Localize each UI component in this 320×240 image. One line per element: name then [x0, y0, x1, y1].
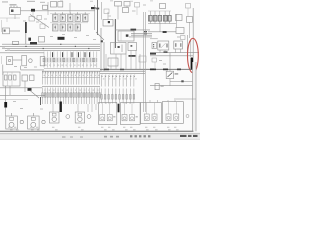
label marks left-mid — [14, 66, 37, 68]
bus y85.7 right — [150, 85, 193, 87]
enclosure E12 — [141, 103, 162, 124]
connector X1 (black) — [31, 9, 35, 12]
wire x101 — [100, 28, 102, 71]
fuse feeds up — [148, 11, 171, 16]
relay K1 — [53, 12, 59, 21]
wire y30 — [115, 29, 150, 31]
connector X5 (black dash) — [131, 29, 137, 31]
module A17 — [30, 75, 35, 81]
wire A1 to X1 — [21, 10, 32, 12]
conduit channel right — [193, 62, 197, 131]
module A11 — [160, 4, 166, 9]
feed M4 — [77, 104, 79, 112]
connector X17 (dark) — [181, 80, 183, 82]
terminal strip T1 — [13, 41, 19, 44]
bus above relay row 1 — [50, 13, 90, 15]
window bottom edge — [0, 139, 200, 140]
connector X7 (dark) — [163, 31, 167, 33]
switch S4 — [158, 41, 169, 50]
connector X10 (dark bar) — [118, 104, 120, 113]
wire x176 — [176, 14, 178, 28]
switch drops — [160, 49, 181, 53]
module A7 — [123, 8, 129, 13]
enclosure E10 — [99, 103, 117, 125]
module A23 — [37, 16, 42, 20]
label marks bottom-left — [13, 101, 43, 110]
fuse row upper ticks — [44, 52, 97, 58]
wire trunk x97 — [97, 0, 99, 35]
connector X3 (dark) — [28, 88, 32, 91]
module A28 — [152, 58, 157, 62]
wire x94 — [94, 5, 96, 30]
wire y99.5 left — [0, 99, 28, 101]
bus y68.3 — [44, 67, 100, 69]
lamp E5 — [87, 115, 91, 119]
bus between relay rows — [50, 22, 88, 24]
module A5 — [103, 20, 113, 27]
switch S2 — [6, 57, 12, 65]
lamp E8 — [186, 115, 189, 118]
connector X14 (dark) — [150, 53, 156, 55]
label marks right-mid — [159, 60, 166, 65]
feed M3 — [52, 104, 54, 112]
relay K3 — [68, 12, 74, 21]
fuse F33 — [158, 16, 162, 22]
wire x155 — [154, 62, 156, 69]
bus bundle right-center — [129, 34, 152, 37]
wire x2.8 down — [2, 65, 4, 75]
module A27 — [186, 4, 191, 9]
wire W1 down — [25, 33, 27, 44]
wire drops center — [106, 51, 140, 70]
bus y87.8 left — [0, 87, 42, 89]
wire x104 — [103, 42, 105, 71]
wire y99 to conduit — [174, 98, 196, 100]
label marks top-left — [2, 1, 45, 3]
relay K10 — [111, 43, 127, 55]
connector X8 (black) — [4, 102, 7, 108]
wire x188 — [187, 8, 189, 17]
fuse links (dark bars) — [52, 52, 90, 57]
wire x160 drop — [159, 23, 161, 32]
bus W12 — [42, 70, 145, 72]
ground rail bottom border — [0, 130, 193, 132]
harness pin dots row 3 — [102, 76, 135, 77]
wire x33 — [32, 12, 34, 17]
harness label haze row 1 — [44, 75, 100, 76]
page margin strip — [0, 132, 200, 134]
motor M2 — [28, 113, 39, 129]
wire trunk x115 (dark) — [114, 19, 116, 48]
bus y55.8 right — [150, 55, 193, 57]
module A26 — [135, 3, 140, 8]
status bar divider — [0, 133, 200, 135]
module A18 — [39, 37, 45, 43]
wire x25 — [24, 81, 26, 92]
wire B2 right — [10, 30, 21, 32]
lamp E4 — [66, 115, 70, 119]
connector X6 marks — [144, 31, 147, 34]
wire y81.4 to conduit — [170, 80, 193, 82]
wire x20.7 — [20, 66, 22, 70]
label marks above bundle — [50, 34, 96, 40]
wire x137 — [136, 7, 138, 15]
module A21 — [139, 56, 146, 62]
enclosure E13 — [162, 102, 183, 124]
module A15 — [181, 36, 186, 40]
relay block K11 — [3, 72, 20, 86]
status bar mid glyphs — [104, 136, 119, 138]
wire y52.8 — [0, 52, 44, 54]
wire x40.5 (dark drop) — [40, 97, 42, 105]
connector X18 (dark dash) — [91, 7, 96, 9]
fuse body band — [44, 58, 97, 63]
module A10 — [187, 17, 193, 23]
junction dot — [101, 40, 103, 42]
module A16 — [22, 75, 28, 81]
bus bar W1 (dark) — [25, 22, 27, 33]
harness pin row 2 — [43, 88, 100, 105]
fuse F31 — [149, 16, 153, 22]
diode V1 — [43, 5, 48, 9]
label marks top edge — [60, 0, 153, 1]
harness pin row 3 — [102, 75, 136, 87]
motor M4 — [75, 112, 85, 123]
label A1 — [10, 4, 17, 5]
wire pair x143.5 — [144, 12, 146, 112]
module A24 — [40, 24, 45, 29]
splice bodies row 2 — [42, 93, 101, 97]
bus W13 — [100, 73, 145, 75]
connector X15 — [152, 43, 157, 49]
harness bus y86.3 — [42, 85, 100, 87]
feeds into enclosures — [106, 100, 175, 104]
relay K7 — [60, 24, 66, 31]
motor M3 — [50, 112, 60, 123]
status bar — [0, 134, 200, 140]
label marks left-center — [2, 19, 47, 51]
wire x118 — [117, 6, 119, 20]
wire diagonal — [96, 32, 104, 40]
fuse label haze — [45, 65, 96, 66]
sensor B2 — [3, 28, 10, 34]
wire x108 up — [107, 12, 109, 20]
motor M1 — [6, 113, 17, 129]
fuse F35 — [168, 16, 172, 22]
pin drops — [150, 21, 169, 23]
harness label haze row 2 — [44, 90, 98, 91]
module A19 — [155, 84, 164, 90]
switch S3 — [22, 55, 27, 65]
module A20 — [176, 28, 184, 34]
wire x190.8 — [190, 40, 192, 57]
harness pin row 1 — [43, 72, 101, 85]
wire x10 — [9, 86, 11, 95]
wire x170 to valve — [169, 53, 171, 72]
wire stub left edge — [0, 18, 20, 22]
wire S2-S3 — [13, 59, 22, 61]
relay K9 — [75, 24, 81, 31]
lamp E1 — [29, 59, 33, 63]
enclosure inner feed wires — [102, 102, 176, 115]
wire x127 — [126, 6, 128, 8]
enclosure E11 — [121, 103, 141, 125]
connector X19 (dark dash) — [96, 8, 99, 10]
box A12 — [40, 57, 45, 66]
module A9 — [176, 15, 183, 21]
bus y31.8 — [148, 31, 176, 33]
wire feed M1 — [5, 108, 7, 117]
connector lugs on W11 — [104, 69, 181, 71]
module A13 — [108, 58, 118, 66]
bus y23.5 — [148, 23, 176, 25]
red annotation ellipse — [188, 38, 199, 72]
harness mid rail row 1 — [42, 77, 100, 79]
relay K6 — [53, 24, 59, 31]
wire y38.8 into S4 — [150, 38, 158, 40]
module A14 — [128, 43, 137, 51]
bus y95.3 left — [0, 94, 45, 96]
wire y69.9 left — [21, 69, 44, 71]
valve Y1 (box with arrow) — [166, 71, 178, 78]
bus bundle W10 — [0, 44, 100, 50]
page edge wire x193 — [192, 8, 194, 62]
wire x170 drop — [169, 79, 171, 86]
connector X11 (dark square) — [28, 38, 31, 41]
labels under enclosures — [10, 128, 179, 131]
relay K5 — [83, 12, 89, 21]
antenna element W2 (dark bar) — [191, 58, 193, 71]
wire diagonal to bus bar — [30, 15, 49, 28]
wire x48 top — [47, 2, 49, 15]
connector X12 (dark dash) — [58, 37, 65, 40]
fuse bodies — [43, 58, 97, 62]
drops to mid motors — [88, 104, 96, 112]
connector X9 (dark bar) — [60, 102, 62, 113]
module A25 — [104, 9, 109, 14]
wire drop from A1 — [14, 15, 16, 20]
relay K4 — [75, 12, 81, 21]
relay K2 — [60, 12, 66, 21]
wire x5.5 — [5, 86, 7, 102]
module cluster A3 — [51, 2, 63, 8]
relay K8 — [68, 24, 74, 31]
wire x189.5 from A10 — [189, 22, 191, 38]
label marks right — [177, 33, 184, 38]
lamp E3 — [42, 120, 45, 123]
connector X2 (dark dash) — [30, 42, 37, 45]
bus y52.6 right — [150, 52, 199, 54]
wire X1 to bus — [35, 10, 95, 12]
harness pin row 4 — [101, 89, 135, 104]
modules A6 — [115, 2, 131, 7]
wire x101.5 top — [101, 2, 103, 20]
left edge wire stubs — [1, 20, 3, 64]
wire diagonal lower-left — [30, 91, 39, 99]
connector X16 (dark) — [164, 51, 168, 53]
module A22 — [29, 17, 35, 22]
fuse lower stubs — [44, 63, 97, 68]
control unit A1 — [10, 6, 21, 15]
harness label haze row 3 — [103, 78, 137, 79]
fuse F32 — [153, 16, 157, 22]
junction dots on bundle — [25, 44, 89, 49]
connector X13 (dark dash) — [129, 55, 136, 57]
fuse F34 — [163, 16, 167, 22]
status bar right text — [180, 135, 198, 137]
labels under motor row — [8, 126, 176, 129]
lamp E2 — [20, 120, 23, 123]
wire x70 top — [69, 3, 71, 13]
status bar faint left marks — [62, 136, 83, 137]
harness pin dots row 1 — [43, 72, 99, 73]
status bar page nav glyphs — [130, 135, 150, 137]
wire x187.3 — [186, 35, 188, 58]
label marks top-center — [108, 5, 146, 17]
ECU A8 — [118, 31, 134, 41]
bus W11 (dark) — [100, 68, 193, 70]
switch S5 — [174, 41, 183, 49]
